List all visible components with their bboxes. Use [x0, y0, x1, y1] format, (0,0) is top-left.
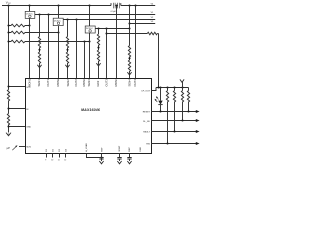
- divider column 3: resistor R8: [98, 29, 100, 35]
- resistor R17 (pullup, to DL_SD line): [182, 88, 184, 91]
- svg-text:SEN4: SEN4: [127, 79, 131, 87]
- svg-text:V3: V3: [151, 21, 154, 23]
- wire pin3 riser: [48, 15, 50, 79]
- wire box3 bottom to pin8: [89, 33, 91, 78]
- wire VCC rail: [2, 3, 155, 5]
- resistor R13 (left bias upper): [7, 90, 9, 101]
- module PS3 (DC-DC): [85, 26, 95, 33]
- wire PS4 sense riser to pin: [116, 6, 118, 79]
- wire R12 to pullup rail corner: [157, 34, 158, 88]
- resistor R2 (left row2): [11, 31, 25, 34]
- svg-text:DBP: DBP: [129, 147, 131, 152]
- svg-text:GND: GND: [140, 147, 142, 152]
- divider column 3: resistor R9: [97, 50, 99, 61]
- junction rail/R17: [181, 86, 183, 88]
- svg-text:OUT2: OUT2: [74, 79, 78, 87]
- resistor R14 (left bias lower): [7, 114, 9, 125]
- svg-text:RSI: RSI: [146, 144, 150, 146]
- divider column 1: resistor R5: [38, 52, 40, 63]
- junction box1-lead/pin3: [47, 13, 49, 15]
- svg-text:MON2: MON2: [56, 78, 60, 87]
- resistor R3 (left row3): [11, 40, 25, 43]
- junction rail/box3: [88, 4, 90, 6]
- wire rail V3: [130, 23, 156, 25]
- wire pullup rail: [156, 87, 189, 89]
- svg-text:MAX16046: MAX16046: [81, 108, 101, 112]
- svg-text:V2: V2: [151, 17, 154, 19]
- module PS4 (inline element): [114, 3, 120, 9]
- wire pin7 riser: [84, 42, 86, 79]
- LED emission arrows: [155, 97, 158, 102]
- ground arrow (divider 3): [96, 63, 100, 66]
- wire left pin ABP: [9, 108, 26, 110]
- junction box2-lead/pin6: [75, 18, 77, 20]
- svg-text:SEN2: SEN2: [66, 79, 70, 87]
- wire left pin VCC: [9, 86, 26, 88]
- junction rail/box1: [28, 4, 30, 6]
- junction box1-lead/divider1: [38, 13, 40, 15]
- svg-text:REF: REF: [101, 147, 103, 152]
- svg-text:GND: GND: [26, 127, 31, 129]
- divider column 4: resistor R11: [128, 60, 130, 71]
- junction rail/divider4: [128, 4, 130, 6]
- svg-text:10: 10: [51, 160, 53, 162]
- junction pin10/R12 feed: [105, 32, 107, 34]
- wire box3 input from rail: [89, 6, 91, 27]
- junction PS4 tap: [115, 4, 117, 6]
- svg-text:FAULT: FAULT: [143, 130, 150, 133]
- wire box1 input from rail: [29, 6, 31, 12]
- LED D5: [160, 88, 162, 101]
- resistor R1 (left row1): [11, 24, 25, 27]
- svg-text:DL_SD: DL_SD: [143, 121, 150, 123]
- supply arrow above rail: [180, 79, 184, 87]
- svg-text:OUT3: OUT3: [105, 79, 109, 87]
- svg-text:11: 11: [58, 160, 60, 162]
- svg-text:SEN3: SEN3: [87, 79, 91, 87]
- wire box1 output rail V1: [35, 14, 155, 16]
- svg-text:µP: µP: [7, 146, 10, 150]
- divider column 2: resistor R7: [66, 52, 68, 63]
- svg-text:V1: V1: [151, 12, 154, 14]
- junction rail/pin13: [134, 4, 136, 6]
- junction rail V3 start: [128, 22, 130, 24]
- bottom pin labels (rotated): [46, 143, 142, 152]
- junction box2-lead/divider2: [66, 18, 68, 20]
- top pin labels (rotated): [27, 78, 137, 87]
- resistor R12 (LED rail feed): [147, 32, 157, 35]
- svg-text:VCC: VCC: [26, 87, 31, 89]
- svg-text:9: 9: [45, 160, 46, 162]
- wire right RSI line: [151, 143, 196, 145]
- module PS2 (DC-DC): [53, 18, 63, 25]
- svg-text:CP_OUT: CP_OUT: [141, 90, 151, 92]
- wire pin6 riser: [76, 20, 78, 79]
- left pin labels: [26, 87, 31, 148]
- divider column 4: resistor R10: [129, 6, 131, 46]
- wire box2 bottom to pin4: [58, 26, 60, 78]
- wire box3 output lead: [95, 28, 129, 30]
- wire left pin GND: [9, 126, 26, 128]
- junction box3-lead/divider3: [97, 27, 99, 29]
- wire right RESET line: [151, 111, 196, 113]
- junction divider2: [67, 48, 69, 53]
- svg-text:A_LOAD: A_LOAD: [85, 143, 88, 152]
- resistor R15 (pullup, to RSI line): [167, 88, 169, 91]
- ground (C3): [127, 161, 131, 164]
- wire box2 output rail V2: [63, 19, 155, 21]
- ground arrow (divider 2): [65, 65, 69, 68]
- wire right DL_SD line: [151, 120, 196, 122]
- module PS1 (DC-DC): [25, 11, 35, 18]
- pin number marks under stubs: [45, 160, 66, 162]
- svg-text:0.1µF: 0.1µF: [111, 11, 117, 13]
- ground arrow (divider 1): [37, 65, 41, 68]
- bottom stub pins D1-D4: [47, 154, 66, 158]
- wire right pin CP_OUT jog: [151, 88, 156, 91]
- svg-text:SDN: SDN: [26, 146, 31, 148]
- ground (C1): [99, 161, 103, 164]
- svg-text:12: 12: [64, 160, 66, 162]
- ground (left bus): [6, 133, 11, 136]
- right pin labels: [141, 90, 151, 145]
- junction divider3: [98, 45, 100, 50]
- wire pin13 riser: [135, 6, 137, 79]
- resistor R16 (pullup, to FAULT line): [174, 88, 176, 91]
- svg-text:MON1: MON1: [27, 78, 31, 87]
- IC U1 MAX16046: [26, 79, 152, 154]
- wire box2 input from rail: [58, 6, 60, 19]
- junction on rail at left bus: [7, 4, 9, 6]
- divider column 1: resistor R4: [39, 15, 41, 37]
- wire box1 bottom to pin1: [29, 18, 31, 78]
- junction rail/R16: [173, 86, 175, 88]
- wire R12 drop joins rail: [157, 86, 159, 88]
- svg-text:OUT1: OUT1: [46, 79, 50, 87]
- divider column 2: resistor R6: [67, 20, 69, 37]
- wire left VCC bus: [8, 6, 10, 90]
- svg-text:MON4: MON4: [114, 78, 118, 87]
- svg-text:SEN1: SEN1: [37, 79, 41, 87]
- svg-text:MON3: MON3: [82, 78, 86, 87]
- junction rail/R15: [166, 86, 168, 88]
- wire left pin SDN: [19, 146, 25, 148]
- capacitor C3 (DBP): [127, 154, 131, 162]
- junction divider4: [129, 57, 131, 60]
- junction box3-lead/pin10: [105, 27, 107, 29]
- ground (C2): [117, 161, 121, 164]
- svg-text:VCC: VCC: [6, 1, 12, 6]
- resistor R18 (pullup, to RESET line): [188, 88, 190, 91]
- svg-text:VDBP: VDBP: [119, 145, 121, 151]
- wire R12 feed: [107, 33, 148, 35]
- junction box3-lead/col4: [128, 27, 130, 29]
- junction rail/led column: [159, 86, 161, 88]
- svg-text:RESET: RESET: [143, 111, 151, 113]
- ground arrow (divider 4): [127, 72, 131, 75]
- capacitor C2 (VDBP): [117, 154, 121, 162]
- junction divider1: [39, 48, 41, 53]
- junction rail/box2: [57, 4, 59, 6]
- svg-text:GD3: GD3: [96, 80, 100, 86]
- svg-text:OUT4: OUT4: [133, 79, 137, 87]
- wire right FAULT line: [151, 131, 196, 133]
- capacitor C1 (ABP2/REF): [87, 154, 102, 158]
- wire pin10 riser: [106, 29, 108, 79]
